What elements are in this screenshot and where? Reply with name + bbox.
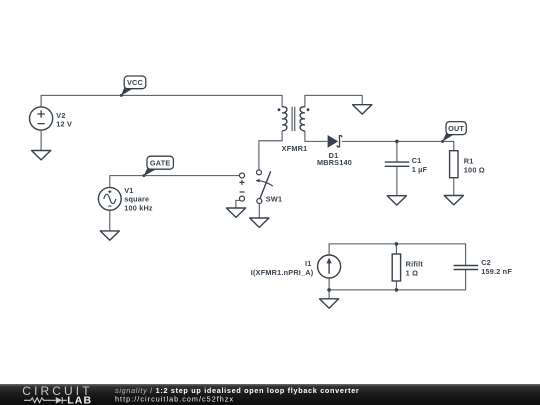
- node dot at C1: [395, 140, 399, 144]
- capacitor C1: [385, 141, 410, 195]
- dot primary: [278, 108, 281, 111]
- voltage source V1: [98, 187, 121, 210]
- wire V1 top to switch control: [110, 176, 240, 188]
- ground under control: [226, 208, 245, 217]
- node dot I1 bottom: [327, 288, 331, 292]
- switch SW1: [256, 170, 273, 204]
- ground under V1: [100, 231, 119, 240]
- wire V2 bottom: [40, 130, 42, 150]
- ground under V2: [32, 151, 51, 160]
- logo diode: [56, 397, 67, 404]
- svg-text:12 V: 12 V: [56, 119, 72, 128]
- ground under SW1: [250, 218, 269, 227]
- resistor R1: [450, 151, 458, 196]
- svg-text:http://circuitlab.com/c52fhzx: http://circuitlab.com/c52fhzx: [115, 395, 234, 404]
- svg-text:100 kHz: 100 kHz: [124, 204, 153, 213]
- svg-text:V1: V1: [124, 186, 133, 195]
- wire control minus to ground: [236, 200, 240, 208]
- current source I1: [318, 255, 341, 278]
- svg-text:159.2 nF: 159.2 nF: [481, 267, 512, 276]
- transformer XFMR1: [278, 107, 310, 131]
- svg-text:Rifilt: Rifilt: [406, 259, 424, 268]
- ground under C1: [387, 196, 406, 205]
- wire SW1 bottom: [258, 204, 260, 218]
- dot secondary: [307, 108, 310, 111]
- svg-text:square: square: [124, 195, 149, 204]
- secondary coil: [300, 107, 305, 131]
- svg-text:OUT: OUT: [448, 124, 464, 133]
- svg-text:XFMR1: XFMR1: [282, 144, 308, 153]
- node dot Rifilt bottom: [395, 288, 399, 292]
- primary coil: [282, 107, 287, 131]
- svg-text:I1: I1: [305, 259, 312, 268]
- wire V1 bottom: [109, 210, 111, 231]
- net flag GATE: [142, 156, 173, 177]
- ground under R1: [444, 196, 463, 205]
- svg-text:MBRS140: MBRS140: [317, 158, 352, 167]
- svg-text:LAB: LAB: [67, 394, 92, 405]
- wire top rail VCC: [41, 95, 282, 107]
- wire I1 bottom rail: [329, 270, 466, 290]
- svg-text:100 Ω: 100 Ω: [464, 166, 485, 175]
- footer bar: [0, 384, 540, 405]
- svg-text:1 Ω: 1 Ω: [406, 268, 419, 277]
- wire primary bottom to switch: [259, 131, 282, 170]
- wire I1 to ground: [328, 290, 330, 299]
- switch control terminals: [240, 173, 245, 201]
- svg-text:1 µF: 1 µF: [412, 165, 428, 174]
- voltage source V2: [29, 107, 52, 130]
- net flag VCC: [120, 76, 146, 97]
- wire secondary bottom to diode: [305, 131, 328, 142]
- svg-text:VCC: VCC: [127, 78, 144, 87]
- capacitor C2: [454, 266, 479, 270]
- wire I1 top rail: [329, 244, 466, 265]
- svg-text:signality / 1:2 step up ideali: signality / 1:2 step up idealised open l…: [115, 386, 359, 395]
- svg-text:SW1: SW1: [266, 194, 282, 203]
- ground under I1: [320, 299, 339, 308]
- wire secondary top to ground: [305, 95, 362, 107]
- resistor Rifilt: [392, 244, 400, 290]
- svg-text:R1: R1: [464, 157, 474, 166]
- svg-text:I(XFMR1.nPRI_A): I(XFMR1.nPRI_A): [251, 268, 314, 277]
- logo resistor zigzag: [24, 398, 56, 403]
- ground top-right: [353, 105, 372, 114]
- diode D1: [328, 135, 342, 148]
- node dot Rifilt top: [395, 242, 399, 246]
- core: [292, 107, 295, 131]
- svg-text:GATE: GATE: [150, 159, 171, 168]
- svg-text:C1: C1: [412, 156, 422, 165]
- svg-text:C2: C2: [481, 258, 491, 267]
- net flag OUT: [441, 122, 466, 143]
- wire diode to R1: [342, 141, 454, 150]
